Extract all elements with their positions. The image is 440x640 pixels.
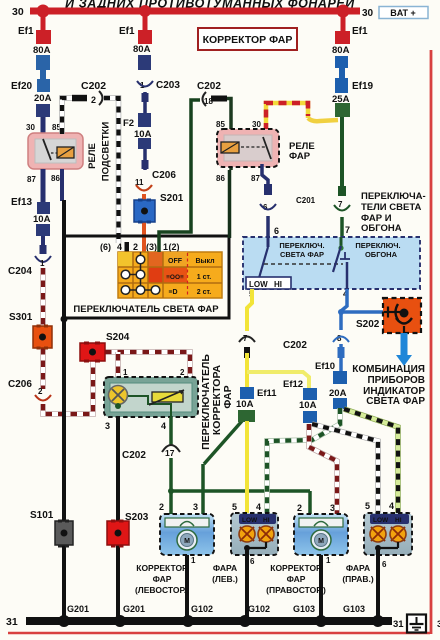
- svg-text:G201: G201: [67, 604, 89, 614]
- svg-text:C203: C203: [156, 80, 180, 91]
- svg-text:G201: G201: [123, 604, 145, 614]
- svg-text:ФАР: ФАР: [289, 151, 311, 162]
- svg-text:C202: C202: [197, 81, 221, 92]
- svg-text:2: 2: [133, 242, 138, 252]
- svg-text:Выкл: Выкл: [195, 258, 214, 265]
- svg-text:РЕЛЕ: РЕЛЕ: [87, 143, 98, 169]
- svg-text:6: 6: [250, 557, 255, 566]
- svg-text:4: 4: [389, 501, 394, 511]
- svg-text:5: 5: [232, 502, 237, 512]
- svg-text:G102: G102: [191, 604, 213, 614]
- svg-text:20A: 20A: [329, 388, 347, 399]
- svg-text:86: 86: [51, 174, 60, 183]
- svg-text:C204: C204: [8, 266, 32, 277]
- svg-text:17: 17: [165, 448, 175, 458]
- svg-text:Ef1: Ef1: [119, 26, 135, 37]
- svg-text:S204: S204: [106, 332, 130, 343]
- svg-text:4: 4: [117, 242, 122, 252]
- svg-text:30: 30: [26, 123, 35, 132]
- svg-text:6: 6: [382, 560, 387, 569]
- svg-text:LOW: LOW: [242, 517, 258, 524]
- svg-text:ФАР: ФАР: [222, 385, 234, 408]
- svg-text:1: 1: [191, 556, 196, 565]
- svg-text:КОРРЕКТОР: КОРРЕКТОР: [136, 563, 188, 573]
- svg-text:Ef11: Ef11: [257, 388, 277, 399]
- svg-text:7: 7: [345, 225, 350, 235]
- svg-text:BAT +: BAT +: [390, 8, 416, 18]
- svg-text:30: 30: [12, 6, 24, 18]
- svg-text:Ef13: Ef13: [11, 197, 33, 208]
- svg-text:(ЛЕВОСТОР.): (ЛЕВОСТОР.): [135, 585, 189, 595]
- svg-text:LOW: LOW: [373, 517, 389, 524]
- svg-text:ПЕРЕКЛЮЧ.: ПЕРЕКЛЮЧ.: [279, 241, 324, 250]
- svg-text:87: 87: [251, 174, 260, 183]
- svg-text:G103: G103: [343, 604, 365, 614]
- svg-text:LOW: LOW: [249, 280, 268, 289]
- svg-text:C202: C202: [81, 80, 106, 92]
- svg-text:20A: 20A: [34, 93, 52, 104]
- svg-text:M: M: [184, 538, 190, 545]
- svg-text:ОБГОНА: ОБГОНА: [365, 250, 398, 259]
- svg-text:10A: 10A: [33, 214, 51, 225]
- svg-text:S101: S101: [30, 510, 54, 521]
- svg-text:5: 5: [365, 501, 370, 511]
- svg-text:M: M: [318, 538, 324, 545]
- svg-text:(ПРАВОСТОР.): (ПРАВОСТОР.): [266, 585, 326, 595]
- svg-text:HI: HI: [274, 280, 282, 289]
- svg-text:Ef1: Ef1: [352, 26, 368, 37]
- svg-text:ФАР: ФАР: [287, 574, 306, 584]
- svg-text:ТЕЛИ СВЕТА: ТЕЛИ СВЕТА: [361, 202, 422, 213]
- svg-text:ФАРА: ФАРА: [346, 563, 370, 573]
- svg-text:ПЕРЕКЛЮЧАТЕЛЬ СВЕТА ФАР: ПЕРЕКЛЮЧАТЕЛЬ СВЕТА ФАР: [73, 304, 219, 315]
- svg-text:Ef20: Ef20: [11, 81, 33, 92]
- svg-text:ФАРА: ФАРА: [213, 563, 237, 573]
- svg-text:F2: F2: [123, 118, 134, 129]
- svg-text:1: 1: [123, 368, 128, 377]
- svg-text:S301: S301: [9, 312, 33, 323]
- svg-text:6: 6: [274, 226, 279, 236]
- svg-text:Ef10: Ef10: [315, 361, 335, 372]
- svg-text:(6): (6): [100, 242, 111, 252]
- svg-text:≡OO≡: ≡OO≡: [166, 274, 184, 281]
- svg-text:2: 2: [180, 368, 185, 377]
- svg-text:G103: G103: [293, 604, 315, 614]
- svg-text:4: 4: [256, 502, 261, 512]
- svg-text:Ef1: Ef1: [18, 26, 34, 37]
- svg-text:≡D: ≡D: [168, 289, 177, 296]
- svg-text:1: 1: [163, 242, 168, 252]
- svg-text:C206: C206: [8, 379, 32, 390]
- svg-text:31: 31: [6, 616, 18, 628]
- svg-text:(3): (3): [146, 242, 157, 252]
- svg-text:2 ст.: 2 ст.: [197, 289, 212, 296]
- svg-text:10A: 10A: [299, 400, 317, 411]
- svg-text:C202: C202: [122, 450, 146, 461]
- svg-text:30: 30: [362, 8, 374, 19]
- svg-text:Ef19: Ef19: [352, 81, 374, 92]
- svg-text:1 ст.: 1 ст.: [197, 274, 212, 281]
- svg-text:СВЕТА ФАР: СВЕТА ФАР: [280, 250, 324, 259]
- svg-text:2: 2: [38, 387, 43, 396]
- svg-text:C202: C202: [283, 340, 307, 351]
- svg-text:87: 87: [27, 175, 36, 184]
- svg-text:HI: HI: [395, 517, 402, 524]
- svg-text:ПРИБОРОВ: ПРИБОРОВ: [367, 375, 425, 386]
- svg-text:(2): (2): [169, 242, 180, 252]
- svg-text:ПЕРЕКЛЮЧА-: ПЕРЕКЛЮЧА-: [361, 191, 426, 202]
- svg-text:G102: G102: [248, 604, 270, 614]
- svg-text:31: 31: [393, 619, 404, 630]
- svg-text:3: 3: [105, 421, 110, 431]
- svg-text:80A: 80A: [332, 45, 350, 56]
- svg-text:S201: S201: [160, 193, 184, 204]
- svg-text:(ПРАВ.): (ПРАВ.): [342, 574, 374, 584]
- svg-text:КОМБИНАЦИЯ: КОМБИНАЦИЯ: [352, 364, 425, 375]
- svg-text:10A: 10A: [236, 399, 254, 410]
- svg-text:85: 85: [216, 120, 225, 129]
- svg-text:КОРРЕКТОР ФАР: КОРРЕКТОР ФАР: [203, 34, 293, 46]
- svg-text:80A: 80A: [33, 45, 51, 56]
- svg-text:S202: S202: [356, 319, 380, 330]
- svg-text:30: 30: [252, 120, 261, 129]
- svg-text:ФАР: ФАР: [153, 574, 172, 584]
- svg-text:3: 3: [193, 502, 198, 512]
- svg-text:СВЕТА ФАР: СВЕТА ФАР: [366, 396, 425, 407]
- svg-text:4: 4: [161, 421, 166, 431]
- svg-text:86: 86: [216, 174, 225, 183]
- svg-text:2: 2: [91, 95, 96, 105]
- svg-text:(ЛЕВ.): (ЛЕВ.): [212, 574, 238, 584]
- svg-text:80A: 80A: [133, 44, 151, 55]
- svg-text:КОРРЕКТОР: КОРРЕКТОР: [270, 563, 322, 573]
- svg-text:2: 2: [159, 502, 164, 512]
- svg-text:OFF: OFF: [168, 258, 183, 265]
- svg-text:ОБГОНА: ОБГОНА: [361, 223, 402, 234]
- svg-text:1: 1: [326, 556, 331, 565]
- svg-text:7: 7: [338, 200, 343, 209]
- svg-text:ПОДСВЕТКИ: ПОДСВЕТКИ: [101, 122, 112, 182]
- svg-text:Ef12: Ef12: [283, 379, 303, 390]
- svg-text:C206: C206: [152, 170, 176, 181]
- svg-text:HI: HI: [263, 517, 270, 524]
- svg-text:2: 2: [297, 503, 302, 513]
- svg-text:ПЕРЕКЛЮЧ.: ПЕРЕКЛЮЧ.: [355, 241, 400, 250]
- svg-text:1: 1: [40, 259, 45, 268]
- svg-text:C201: C201: [296, 196, 316, 205]
